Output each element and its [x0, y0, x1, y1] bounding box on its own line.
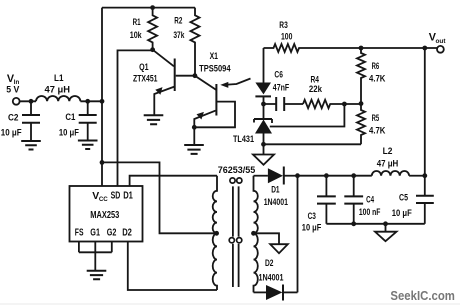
svg-text:22k: 22k: [309, 84, 323, 95]
wire L2 to right bus: [409, 175, 425, 177]
wire ground stub: [385, 224, 387, 232]
svg-text:FS: FS: [75, 227, 84, 238]
svg-text:37k: 37k: [173, 30, 184, 41]
node L2/right-bus junction: [422, 173, 427, 178]
node R1-bottom junction: [150, 47, 155, 52]
wire G1 to ground: [94, 252, 96, 270]
node ground tap: [383, 221, 388, 226]
svg-text:R2: R2: [174, 16, 182, 27]
wire secondary top to D1: [254, 175, 268, 177]
opto light arrow: [224, 79, 251, 85]
wire L1 to left bus: [80, 100, 102, 102]
diode D1 1N4001: [268, 168, 283, 183]
wire left vertical bus: [101, 8, 103, 186]
node C4 bottom: [351, 221, 356, 226]
svg-text:MAX253: MAX253: [90, 210, 119, 221]
node C4 tap: [351, 173, 356, 178]
wire Vcc junction to transformer center tap: [102, 162, 217, 233]
svg-text:TL431: TL431: [233, 134, 255, 145]
svg-text:10 μF: 10 μF: [302, 222, 322, 232]
wire R3 corner down to opto LED: [263, 48, 265, 83]
svg-text:4.7K: 4.7K: [369, 73, 386, 84]
svg-text:10 μF: 10 μF: [59, 128, 79, 138]
svg-text:C6: C6: [274, 69, 283, 80]
svg-text:100: 100: [281, 32, 292, 43]
node R3/R6 junction: [359, 46, 364, 51]
capacitor C4: [353, 176, 355, 197]
node X1 emitter junction: [192, 125, 197, 130]
svg-text:76253/55: 76253/55: [218, 165, 256, 176]
wire right vertical Vout bus: [424, 48, 426, 176]
node top-rail/R1 junction: [150, 5, 155, 10]
polarity circles top: [230, 178, 235, 183]
iso ground arrow (TL431): [253, 155, 274, 165]
opto LED diode: [255, 83, 271, 95]
resistor R2: [191, 8, 200, 76]
diode D2 1N4001: [266, 285, 282, 300]
node R6/R5 junction: [359, 101, 364, 106]
svg-text:5 V: 5 V: [6, 85, 20, 96]
svg-text:10 μF: 10 μF: [392, 208, 412, 218]
node C1 tap: [85, 99, 90, 104]
Vout terminal: [437, 46, 444, 53]
svg-text:D1: D1: [271, 184, 280, 195]
svg-text:10k: 10k: [130, 30, 143, 41]
wire top rail: [102, 7, 195, 9]
svg-text:R1: R1: [133, 17, 141, 28]
svg-text:R3: R3: [279, 20, 288, 31]
svg-text:C5: C5: [399, 193, 409, 204]
wire anode to iso ground: [263, 144, 265, 154]
resistor R6: [357, 48, 365, 104]
capacitor C2: [30, 101, 32, 115]
svg-text:SD: SD: [111, 191, 121, 202]
node secondary center tap: [251, 231, 256, 236]
ground X1: [184, 145, 204, 154]
node left-bus/center-tap-wire junction: [100, 160, 105, 165]
svg-text:ZTX451: ZTX451: [133, 74, 158, 85]
svg-text:Q1: Q1: [139, 62, 149, 73]
node C6 tap: [261, 102, 266, 107]
svg-text:D2: D2: [122, 227, 132, 238]
transformer core: [233, 186, 239, 287]
capacitor C3: [325, 176, 327, 197]
svg-text:R6: R6: [372, 61, 380, 72]
secondary winding: [254, 176, 258, 293]
svg-text:100 nF: 100 nF: [359, 207, 381, 217]
resistor R4: [303, 100, 361, 108]
ground Q1 emitter: [144, 115, 164, 124]
wire R1 junction to SD drop: [118, 50, 153, 186]
primary winding: [213, 176, 217, 290]
svg-text:SeekIC.com: SeekIC.com: [390, 289, 455, 303]
ground below C2: [21, 141, 41, 150]
svg-text:C1: C1: [65, 112, 76, 123]
svg-text:47 μH: 47 μH: [377, 159, 399, 169]
svg-text:C3: C3: [308, 211, 316, 222]
wire secondary center tap to iso ground: [254, 233, 280, 244]
svg-text:G1: G1: [90, 227, 100, 238]
resistor R1: [148, 8, 157, 50]
ground MAX253: [87, 271, 107, 280]
svg-text:D1: D1: [123, 191, 133, 202]
node Vin/left-bus junction: [100, 99, 105, 104]
node primary center tap: [214, 231, 219, 236]
node Vout junction: [422, 46, 427, 51]
wire TL431 ref line: [270, 104, 345, 127]
svg-text:1N4001: 1N4001: [259, 273, 285, 284]
page edge shading: [0, 303, 460, 304]
wire Vin to L1: [20, 100, 36, 102]
iso ground arrow (secondary): [270, 244, 288, 253]
svg-text:C4: C4: [366, 194, 374, 205]
svg-text:47 μH: 47 μH: [45, 85, 71, 95]
svg-text:L2: L2: [383, 146, 393, 157]
wire FS G1 G2 bracket: [79, 242, 112, 253]
wire Vout rail: [361, 47, 437, 49]
svg-text:G2: G2: [107, 227, 117, 238]
svg-text:47nF: 47nF: [273, 83, 290, 94]
wire X1 emitter to ground: [193, 127, 195, 144]
IC MAX253 box: [70, 186, 143, 242]
inductor L1: [36, 96, 80, 101]
polarity circles mid: [229, 238, 234, 243]
svg-text:R5: R5: [372, 113, 380, 124]
iso ground arrow (output): [375, 232, 397, 242]
wire D2 cathode up to D1 junction: [297, 176, 299, 293]
node TL431 anode junction: [261, 142, 266, 147]
wire R5 bottom to TL431 anode: [264, 143, 362, 145]
wire D1 pin to primary top: [130, 176, 217, 186]
node C3 tap: [324, 173, 329, 178]
wire secondary bottom to D2: [254, 291, 267, 293]
svg-text:L1: L1: [54, 73, 64, 84]
wire D2 pin to primary bottom: [128, 242, 217, 291]
svg-text:D2: D2: [265, 258, 274, 269]
wire bottom bus: [326, 223, 424, 225]
node R2/Q1-base/X1 junction: [193, 73, 198, 78]
capacitor C5: [424, 176, 426, 196]
node C2 tap: [29, 99, 34, 104]
svg-text:C2: C2: [8, 113, 19, 124]
node R4/ref junction: [342, 102, 347, 107]
inductor L2: [372, 171, 409, 176]
resistor R3: [264, 44, 362, 52]
svg-text:1N4001: 1N4001: [264, 197, 289, 208]
resistor R5: [357, 104, 365, 145]
ground below C1: [78, 141, 98, 150]
node D1 cathode junction: [295, 173, 300, 178]
svg-text:TPS5094: TPS5094: [199, 64, 231, 75]
wire output rail: [298, 175, 372, 177]
Vin terminal: [13, 98, 20, 105]
svg-text:4.7K: 4.7K: [369, 126, 386, 137]
capacitor C1: [87, 101, 89, 115]
svg-text:X1: X1: [210, 51, 219, 62]
svg-text:10 μF: 10 μF: [1, 128, 22, 138]
